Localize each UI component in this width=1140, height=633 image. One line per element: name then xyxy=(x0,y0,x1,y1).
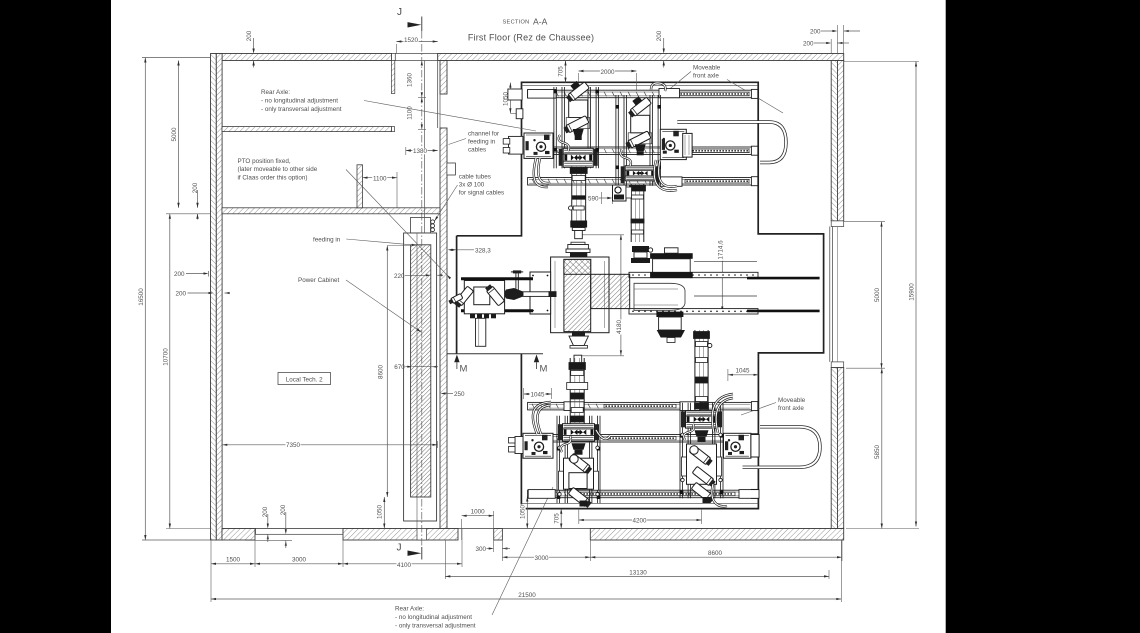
svg-text:First Floor (Rez de Chauss: First Floor (Rez de Chaussee) xyxy=(468,33,594,43)
centerline J-J xyxy=(421,31,423,547)
T2 roller cluster xyxy=(632,246,649,252)
central machine hatched block xyxy=(564,259,591,331)
power cabinet hatched xyxy=(411,245,431,497)
svg-text:200: 200 xyxy=(246,30,253,41)
1045 dims xyxy=(523,388,525,399)
rail top-3 xyxy=(528,178,752,186)
bottom wall xyxy=(222,528,844,530)
assembly B2 xyxy=(679,403,681,499)
1360 1100 dims xyxy=(421,61,423,66)
svg-text:for signal cables: for signal cables xyxy=(459,190,505,197)
svg-text:feeding in: feeding in xyxy=(313,237,341,244)
svg-text:Rear Axle:: Rear Axle: xyxy=(261,89,290,96)
svg-text:1100: 1100 xyxy=(373,175,387,182)
top wall opening xyxy=(392,54,396,61)
svg-text:220: 220 xyxy=(394,273,405,280)
central machine bottom cone xyxy=(572,332,585,337)
left flange plate xyxy=(530,272,551,314)
crosshatch block xyxy=(564,259,591,274)
svg-text:2000: 2000 xyxy=(600,69,615,76)
svg-text:J: J xyxy=(397,543,402,554)
svg-text:A-A: A-A xyxy=(533,17,548,27)
right outer wall upper xyxy=(831,61,837,221)
svg-text:5000: 5000 xyxy=(171,127,178,142)
assembly T2 xyxy=(615,95,617,186)
svg-text:4200: 4200 xyxy=(632,518,647,525)
car body outline xyxy=(634,283,685,310)
svg-text:3000: 3000 xyxy=(292,557,307,564)
svg-text:200: 200 xyxy=(262,506,269,517)
svg-text:4100: 4100 xyxy=(397,562,412,569)
central machine plate xyxy=(551,257,609,333)
top-right 200 dims xyxy=(836,25,838,54)
svg-text:10700: 10700 xyxy=(162,348,169,366)
rail sliders top xyxy=(528,90,557,99)
svg-text:J: J xyxy=(397,7,402,18)
svg-text:PTO position fixed,: PTO position fixed, xyxy=(238,158,291,165)
svg-text:front axle: front axle xyxy=(693,73,719,80)
svg-text:3x Ø 100: 3x Ø 100 xyxy=(459,182,485,189)
svg-text:cables: cables xyxy=(468,147,486,154)
svg-text:(later moveable to other s: (later moveable to other side xyxy=(238,166,318,173)
interior wall 1 xyxy=(222,127,392,132)
u-pipe bottom xyxy=(743,427,821,468)
side member bottom xyxy=(629,309,758,314)
svg-text:- only transversal adjustme: - only transversal adjustment xyxy=(395,623,476,630)
rail ticks top xyxy=(532,92,535,97)
rail sliders bottom xyxy=(528,490,555,499)
rail top-1 xyxy=(528,90,752,98)
motors top xyxy=(508,89,522,100)
svg-text:200: 200 xyxy=(174,271,185,278)
dimensions right side xyxy=(844,61,919,63)
svg-text:200: 200 xyxy=(656,30,663,41)
left outer wall xyxy=(211,54,217,541)
rail top-2 xyxy=(528,147,752,155)
valve small boxes T xyxy=(613,185,627,201)
right outer wall lower xyxy=(831,368,837,529)
svg-text:5850: 5850 xyxy=(874,445,881,460)
rail bottom-B xyxy=(528,435,752,443)
T1 actuator xyxy=(571,167,573,221)
svg-text:cable tubes: cable tubes xyxy=(459,174,491,181)
B2 actuator xyxy=(694,330,696,410)
svg-text:1045: 1045 xyxy=(530,392,545,399)
1714,6 dim xyxy=(721,256,723,312)
svg-text:200: 200 xyxy=(803,41,814,48)
svg-text:590: 590 xyxy=(588,195,599,202)
svg-text:200: 200 xyxy=(810,29,821,36)
svg-text:1000: 1000 xyxy=(471,509,486,516)
pto machine rails xyxy=(461,277,533,280)
side member top xyxy=(629,272,758,277)
assembly T1 xyxy=(553,87,555,168)
svg-text:Moveable: Moveable xyxy=(778,397,806,404)
dimensions left side xyxy=(142,57,211,59)
top wall right segment xyxy=(438,54,844,61)
svg-text:13130: 13130 xyxy=(629,569,647,576)
svg-text:3000: 3000 xyxy=(534,555,549,562)
svg-text:7350: 7350 xyxy=(286,442,301,449)
svg-text:21500: 21500 xyxy=(518,592,536,599)
svg-text:250: 250 xyxy=(454,391,465,398)
4200 dim xyxy=(578,509,580,524)
svg-text:16500: 16500 xyxy=(138,288,145,306)
svg-text:- no longitudinal adjustmen: - no longitudinal adjustment xyxy=(395,614,472,621)
T2 actuator xyxy=(630,184,632,242)
rail bottom-C xyxy=(528,490,752,498)
motors bottom xyxy=(523,433,553,458)
svg-text:Local Tech. 2: Local Tech. 2 xyxy=(286,376,323,383)
pto support column xyxy=(476,318,486,346)
4180 dim xyxy=(581,234,624,236)
svg-text:4180: 4180 xyxy=(616,320,623,335)
svg-text:M: M xyxy=(540,364,548,375)
svg-text:1050: 1050 xyxy=(520,505,527,520)
pit outline xyxy=(457,82,824,508)
svg-text:1045: 1045 xyxy=(735,368,750,375)
svg-text:- no longitudinal adjustmen: - no longitudinal adjustment xyxy=(261,98,338,105)
u-pipe top xyxy=(677,122,786,163)
T stand xyxy=(515,273,517,294)
power cabinet outer xyxy=(404,233,437,521)
Local Tech 2 label box xyxy=(278,373,331,385)
svg-text:200: 200 xyxy=(192,182,199,193)
svg-text:if Claas order this option: if Claas order this option) xyxy=(238,174,308,181)
roller top xyxy=(650,253,693,259)
heavy pipes right xyxy=(747,277,820,280)
bottom dimension rows xyxy=(210,540,212,602)
svg-text:1520: 1520 xyxy=(404,37,419,44)
track lines right of rollers xyxy=(694,260,757,262)
svg-text:channel for: channel for xyxy=(468,131,499,138)
svg-text:5000: 5000 xyxy=(874,288,881,303)
svg-text:Moveable: Moveable xyxy=(693,65,721,72)
svg-text:8600: 8600 xyxy=(708,550,723,557)
svg-text:Rear Axle:: Rear Axle: xyxy=(395,606,424,613)
rail ticks bottom xyxy=(532,404,535,409)
svg-text:8600: 8600 xyxy=(378,365,385,380)
PTO wall stub xyxy=(357,165,363,208)
svg-text:1100: 1100 xyxy=(407,106,414,120)
svg-text:- only transversal adjustme: - only transversal adjustment xyxy=(261,106,342,113)
svg-text:1360: 1360 xyxy=(407,73,414,88)
svg-text:705: 705 xyxy=(558,66,565,77)
pit rim lines xyxy=(522,85,759,87)
central machine top motor xyxy=(571,242,585,244)
section markers M xyxy=(454,355,459,363)
roller bottom xyxy=(656,312,683,317)
svg-text:1050: 1050 xyxy=(377,505,384,520)
svg-text:670: 670 xyxy=(394,364,405,371)
svg-text:705: 705 xyxy=(553,513,560,524)
svg-text:1500: 1500 xyxy=(226,557,241,564)
right wall window xyxy=(831,221,844,227)
cable tubes circles xyxy=(431,220,435,224)
interior wall 2 xyxy=(222,208,447,214)
svg-text:328,3: 328,3 xyxy=(475,247,491,254)
svg-text:1714,6: 1714,6 xyxy=(717,240,724,260)
M-M section line xyxy=(447,353,543,355)
2000 dim xyxy=(578,73,580,82)
svg-text:Power Cabinet: Power Cabinet xyxy=(298,277,340,284)
1520 dim xyxy=(395,44,397,54)
assembly B1 xyxy=(556,416,558,504)
hoses top xyxy=(534,158,548,187)
svg-text:300: 300 xyxy=(475,546,486,553)
pto shaft xyxy=(523,292,551,297)
svg-text:200: 200 xyxy=(175,291,186,298)
dividing wall xyxy=(440,61,447,95)
svg-text:front axle: front axle xyxy=(778,405,804,412)
svg-text:feeding in: feeding in xyxy=(468,139,496,146)
B1 actuator xyxy=(574,355,582,365)
svg-text:15900: 15900 xyxy=(909,283,916,301)
svg-text:M: M xyxy=(460,364,468,375)
1380 dim xyxy=(405,147,407,155)
vestibule box xyxy=(411,218,431,234)
pto machine body xyxy=(464,281,504,314)
svg-text:200: 200 xyxy=(280,504,287,515)
svg-text:SECTION: SECTION xyxy=(503,19,530,25)
top wall left segment xyxy=(213,54,392,61)
svg-text:1380: 1380 xyxy=(413,148,428,155)
pto machine combs xyxy=(470,314,475,319)
rail bottom-A xyxy=(528,402,752,410)
hoses bottom xyxy=(533,402,551,434)
